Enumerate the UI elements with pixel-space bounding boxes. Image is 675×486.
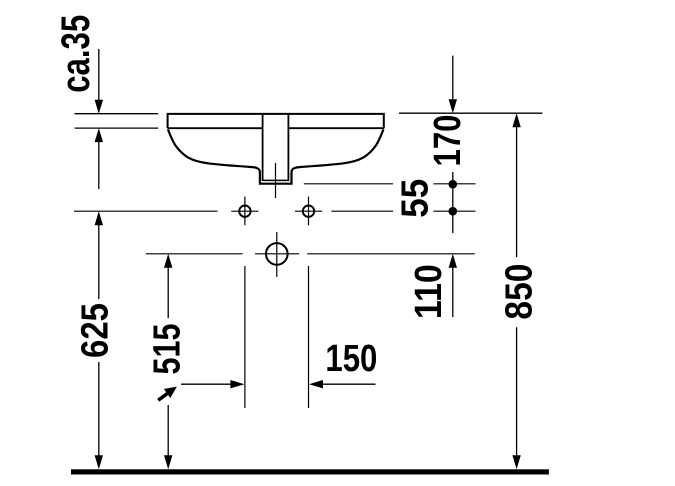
overflow level line at dot xyxy=(433,183,475,185)
dimension 515 arrow down at floor xyxy=(164,455,172,469)
drain circle xyxy=(266,243,288,265)
drain crosshair horizontal xyxy=(255,253,299,255)
dimension 625 arrow up xyxy=(95,211,103,225)
faucet hole line segment mid right xyxy=(331,210,393,212)
dimension 625 arrow down at floor xyxy=(95,455,103,469)
dimension ca.35 arrow up xyxy=(95,128,103,142)
floor line xyxy=(71,469,549,474)
faucet hole left crosshair vertical xyxy=(244,197,246,226)
dimension 515 line upper xyxy=(167,265,169,319)
dimension 55 dot lower xyxy=(449,207,458,216)
center axis line lower segment xyxy=(276,232,278,277)
countertop extension line left upper xyxy=(75,113,159,115)
dimension 170 leader line top xyxy=(452,56,454,102)
svg-text:625: 625 xyxy=(75,303,117,358)
tap hole extension line right for 150 xyxy=(308,266,310,408)
reference arrow to 515 line xyxy=(158,387,177,401)
drain box inner bottom xyxy=(262,179,290,181)
faucet hole line segment at dot xyxy=(433,210,475,212)
dimension 150 left arrow xyxy=(181,380,244,388)
svg-text:850: 850 xyxy=(499,264,541,320)
svg-text:515: 515 xyxy=(147,324,189,375)
overflow level line left xyxy=(304,183,393,185)
faucet hole right crosshair horizontal xyxy=(295,210,322,212)
svg-text:110: 110 xyxy=(408,264,450,319)
dimension 515 line lower xyxy=(167,405,169,458)
faucet hole right circle xyxy=(303,206,314,217)
dimension 625 line upper xyxy=(98,222,100,299)
dimension 55 vertical line through dots xyxy=(452,172,454,233)
washbasin bowl outline xyxy=(168,129,384,183)
dimension ca.35 leader line bottom xyxy=(98,139,100,189)
dimension 850 line upper xyxy=(516,125,518,258)
washbasin rim inner edge left xyxy=(168,127,263,129)
dimension 850 line lower xyxy=(516,327,518,458)
drain level line left xyxy=(146,253,243,255)
svg-text:55: 55 xyxy=(395,179,437,218)
drain level line right xyxy=(307,253,475,255)
washbasin rim outline xyxy=(168,114,384,128)
center axis line upper segment xyxy=(275,163,277,198)
dimension 110 arrow up xyxy=(449,254,457,268)
dimension 850 arrow up xyxy=(512,113,520,127)
faucet hole left crosshair horizontal xyxy=(231,210,258,212)
faucet hole left circle xyxy=(239,206,250,217)
dimension 150 right arrow xyxy=(309,380,376,388)
faucet hole right crosshair vertical xyxy=(308,197,310,226)
dimension 625 line lower xyxy=(98,362,100,458)
rim level dimension line right xyxy=(399,112,542,114)
faucet hole line segment far left xyxy=(74,210,218,212)
countertop extension line left lower xyxy=(75,127,159,129)
svg-text:ca.35: ca.35 xyxy=(54,15,98,93)
faucet column left line xyxy=(262,114,264,180)
dimension 850 arrow down at floor xyxy=(512,455,520,469)
washbasin rim inner edge right xyxy=(288,127,383,129)
dimension ca.35 leader line top xyxy=(98,49,100,103)
faucet column right line xyxy=(287,114,289,180)
dimension 515 arrow up xyxy=(164,254,172,268)
tap hole extension line left for 150 xyxy=(244,266,246,408)
svg-text:170: 170 xyxy=(427,115,469,167)
dimension 110 line xyxy=(452,265,454,318)
dimension 55 dot upper xyxy=(449,180,458,189)
dimension 170 arrow down xyxy=(449,99,457,113)
svg-text:150: 150 xyxy=(325,338,377,380)
dimension ca.35 arrow down xyxy=(95,100,103,114)
